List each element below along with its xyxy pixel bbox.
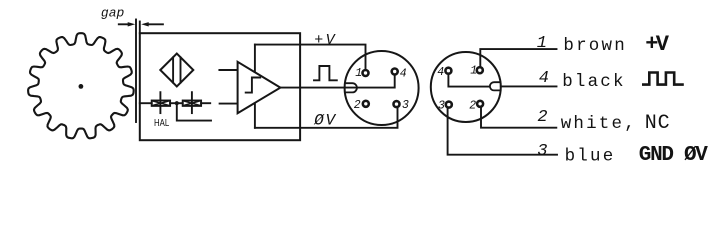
wire 1 brown <box>480 49 556 67</box>
wire 2 white <box>481 107 556 127</box>
J2 pin 1 <box>477 67 483 73</box>
svg-text:white,: white, <box>561 114 637 134</box>
svg-text:brown: brown <box>563 36 627 56</box>
svg-text:4: 4 <box>437 66 444 79</box>
svg-text:3: 3 <box>438 100 445 113</box>
gear face extension line <box>135 20 137 123</box>
hall element U1 <box>160 54 193 87</box>
svg-text:1: 1 <box>537 34 547 53</box>
0V rail wire to pin 3 <box>255 109 398 128</box>
svg-text:1: 1 <box>470 65 477 78</box>
+V rail wire to pin 1 <box>255 45 366 69</box>
wire R2 right lead <box>201 102 210 104</box>
svg-text:3: 3 <box>402 99 409 112</box>
svg-text:black: black <box>562 72 626 92</box>
svg-text:gap: gap <box>101 5 125 20</box>
comparator U2 <box>238 62 281 113</box>
node junction dot <box>175 101 179 105</box>
comparator input wire - <box>220 103 238 105</box>
pulse symbol <box>314 66 337 80</box>
svg-text:2: 2 <box>537 108 547 127</box>
J1 pin 4 <box>392 69 398 75</box>
gear wheel <box>28 33 134 138</box>
connector J1 shell <box>345 51 419 125</box>
svg-text:4: 4 <box>539 69 549 88</box>
svg-text:HAL: HAL <box>154 117 169 129</box>
wire R1 to node <box>170 102 183 104</box>
svg-text:+V: +V <box>314 32 337 49</box>
ground stub wire from node <box>177 103 211 120</box>
signal output wire to pin 4 <box>280 76 394 88</box>
J2 keyway slot <box>490 82 501 90</box>
svg-text:ØV: ØV <box>313 111 337 129</box>
resistor R2 <box>183 92 201 113</box>
comparator input wire + <box>219 69 237 71</box>
svg-text:4: 4 <box>400 67 407 80</box>
supply rail vertical <box>254 45 256 128</box>
J1 pin 3 <box>394 101 400 107</box>
gear center dot <box>79 84 84 89</box>
svg-text:blue: blue <box>565 146 616 166</box>
wire lead left <box>140 102 152 104</box>
svg-text:+V: +V <box>645 32 670 57</box>
svg-text:2: 2 <box>354 99 361 112</box>
svg-text:NC: NC <box>645 112 671 135</box>
J2 pin 3 <box>446 102 452 108</box>
J2 pin 4 internal wire to keyway <box>448 74 489 86</box>
resistor R1 <box>152 92 170 113</box>
svg-text:2: 2 <box>469 100 476 113</box>
label white, NC <box>561 112 671 135</box>
gap dimension right arrow <box>141 22 163 26</box>
wire 4 black <box>501 85 557 87</box>
double pulse symbol <box>643 73 682 85</box>
svg-text:GND ØV: GND ØV <box>639 144 709 167</box>
box face extension line <box>139 22 141 34</box>
svg-text:1: 1 <box>355 67 362 80</box>
gap dimension left arrow <box>119 22 135 26</box>
J2 pin 2 <box>477 101 483 107</box>
J2 pin 4 <box>445 68 451 74</box>
J1 pin 1 <box>363 70 369 76</box>
svg-text:3: 3 <box>537 142 547 161</box>
J1 pin 2 <box>363 101 369 107</box>
connector J2 shell <box>431 52 501 122</box>
sensor box <box>140 33 300 140</box>
wire 3 blue <box>448 108 557 155</box>
J1 keyway slot <box>345 83 357 92</box>
